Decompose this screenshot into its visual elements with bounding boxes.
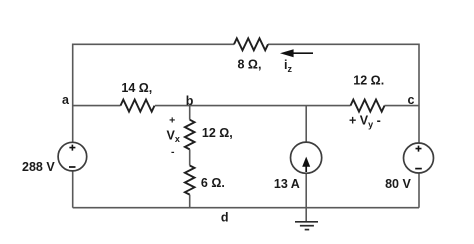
svg-text:a: a [62, 93, 70, 107]
current arrow i_z [280, 49, 313, 57]
voltage source 288 V [58, 142, 87, 171]
current source 13 A [291, 142, 322, 173]
svg-text:8 Ω,: 8 Ω, [238, 57, 262, 71]
wire top (node a side to 8-ohm, across to node c side) [73, 43, 419, 45]
svg-text:80 V: 80 V [385, 177, 411, 191]
wire left vertical (top corner to 288V source, source to bottom corner) [72, 44, 74, 208]
resistor 6 ohm (vertical at b) [185, 166, 195, 195]
svg-text:6 Ω.: 6 Ω. [201, 176, 225, 190]
wire branch 13A vertical (middle wire to source, source to ground) [305, 106, 307, 222]
resistor 12 ohm (b-c) [351, 100, 385, 112]
svg-text:-: - [171, 146, 175, 158]
svg-text:12 Ω,: 12 Ω, [202, 126, 233, 140]
ground [295, 222, 318, 230]
wire bottom d [73, 207, 419, 209]
svg-text:d: d [221, 211, 229, 225]
wire branch b vertical (b to 12-ohm, link, 6-ohm to bottom) [189, 106, 191, 208]
wire right vertical (top corner to 80V source, source to bottom corner) [418, 44, 420, 208]
svg-text:14 Ω,: 14 Ω, [121, 81, 152, 95]
svg-text:13 A: 13 A [274, 177, 300, 191]
svg-text:Vx: Vx [167, 129, 180, 145]
svg-text:+ Vy -: + Vy - [349, 114, 381, 130]
svg-text:iz: iz [284, 58, 292, 74]
voltage source 80 V [404, 143, 434, 173]
label Vx with polarity [167, 115, 180, 159]
svg-text:12 Ω.: 12 Ω. [353, 74, 384, 88]
resistor 12 ohm (vertical at b) [185, 120, 195, 150]
svg-text:288 V: 288 V [22, 160, 55, 174]
resistor 8 ohm (top) [234, 38, 268, 50]
svg-text:+: + [169, 115, 175, 127]
wire middle horizontal a-b-c [73, 105, 419, 107]
resistor 14 ohm (a-b) [121, 100, 155, 112]
svg-text:c: c [408, 93, 415, 107]
